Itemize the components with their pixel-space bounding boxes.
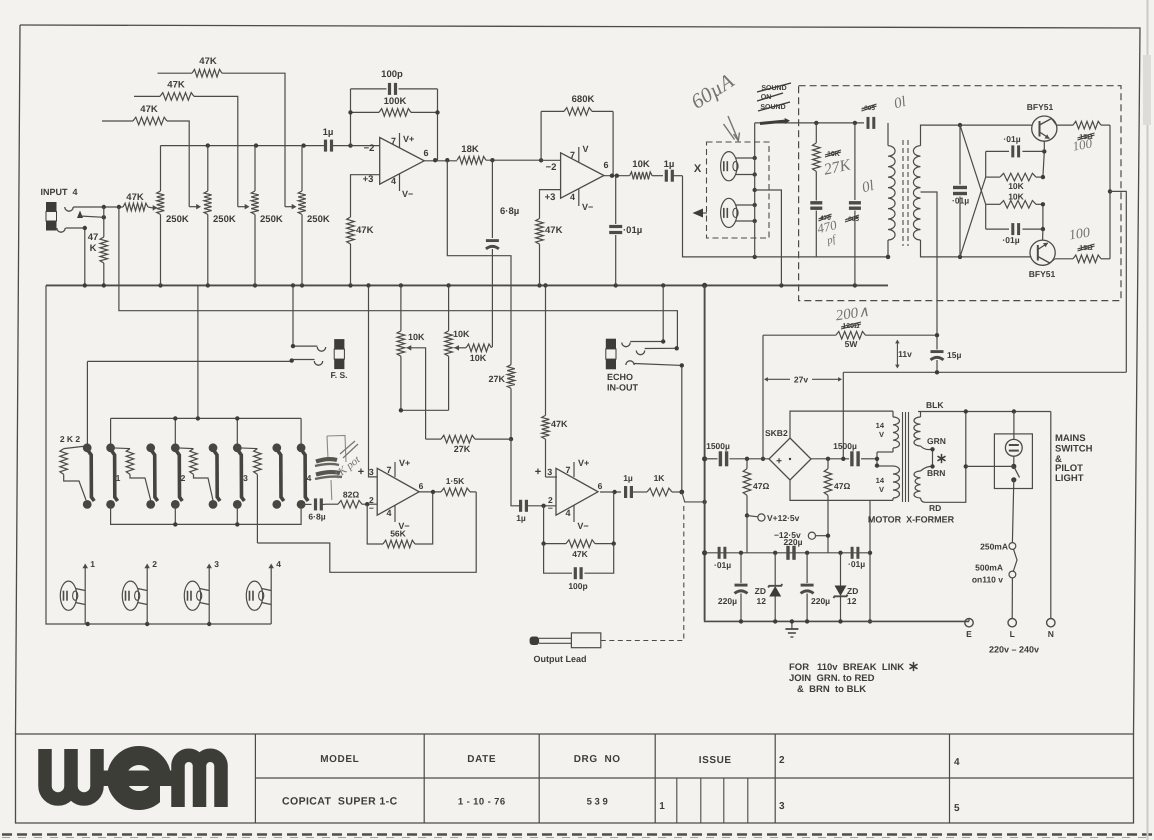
- svg-text:BRN: BRN: [927, 468, 945, 478]
- U2 feedback rails: [541, 111, 613, 175]
- resistor 47ohm supply 1: [743, 459, 769, 553]
- capacitor 100p U4 feedback: [544, 544, 614, 591]
- wire osc output tap: [1110, 191, 1126, 372]
- node input tip junction: [102, 207, 106, 220]
- svg-text:LIGHT: LIGHT: [1055, 473, 1084, 484]
- svg-text:3: 3: [243, 473, 248, 483]
- switch position labels: [116, 473, 312, 483]
- svg-text:1: 1: [659, 801, 665, 812]
- motor transformer T2 secondary upper: [914, 412, 931, 450]
- svg-text:1 - 10 - 76: 1 - 10 - 76: [458, 797, 506, 808]
- resistor 27K fb vertical: [488, 365, 514, 439]
- svg-text:N: N: [1048, 629, 1054, 639]
- erase head EH: [721, 198, 739, 227]
- wire switch out: [301, 503, 311, 505]
- wire FS tip to bus: [291, 285, 318, 348]
- wire switch feed from bus: [197, 285, 199, 418]
- label ISSUE: [699, 755, 732, 766]
- wiper arrow pot 250K-2: [189, 204, 201, 210]
- svg-text:3: 3: [369, 467, 374, 477]
- label 220v-240v: [989, 645, 1039, 655]
- output lead screened cable: [601, 492, 707, 641]
- playback head 4: [246, 559, 281, 624]
- svg-text:82Ω: 82Ω: [343, 490, 359, 500]
- svg-text:1500µ: 1500µ: [833, 441, 857, 451]
- svg-text:47K: 47K: [199, 56, 217, 67]
- svg-text:V−: V−: [582, 202, 593, 212]
- svg-text:BFY51: BFY51: [1029, 269, 1056, 279]
- note FOR 110v BREAK LINK: [789, 662, 918, 695]
- handwritten 100 lower: [1068, 226, 1091, 244]
- mains switch box: [994, 434, 1032, 489]
- svg-text:SKB2: SKB2: [765, 428, 788, 438]
- handwritten arrow overlay: [760, 118, 790, 124]
- resistor 56K U3 feedback: [367, 492, 433, 548]
- handwritten 27K osc: [822, 156, 853, 178]
- svg-text:4: 4: [565, 508, 570, 518]
- capacitor .01u U2 out shunt: [609, 176, 642, 286]
- svg-text:47K: 47K: [572, 549, 588, 559]
- capacitor 1u U4 input: [516, 500, 556, 523]
- resistor 27K osc (10K crossed): [813, 123, 842, 201]
- svg-text:MOTOR X-FORMER: MOTOR X-FORMER: [868, 515, 955, 525]
- handwritten 01 mid: [860, 178, 875, 196]
- wire SKB2 bottom to primary: [790, 480, 893, 500]
- svg-text:4: 4: [386, 508, 391, 518]
- Output Lead label: [534, 654, 587, 664]
- svg-text:·01µ: ·01µ: [1003, 134, 1020, 144]
- svg-text:MAINS: MAINS: [1055, 433, 1086, 444]
- upper fb right rail: [1041, 149, 1047, 179]
- resistor 47K U4 feedback: [541, 492, 616, 559]
- X mark record head: [694, 163, 702, 175]
- motor transformer primary link: [875, 452, 893, 468]
- capacitor 1u to heads: [664, 159, 683, 182]
- playback head 1: [60, 559, 95, 624]
- wire head mid tap to bus: [755, 190, 782, 285]
- svg-text:14: 14: [876, 476, 885, 485]
- U1 pin -2 label: [364, 143, 375, 154]
- svg-text:FOR 110v BREAK LINK: FOR 110v BREAK LINK: [789, 662, 904, 673]
- svg-text:250K: 250K: [166, 214, 189, 225]
- svg-text:1·5K: 1·5K: [446, 476, 465, 486]
- asterisk break link: [938, 454, 946, 463]
- svg-text:6: 6: [603, 160, 608, 170]
- svg-text:47K: 47K: [126, 192, 144, 203]
- svg-text:Output Lead: Output Lead: [534, 654, 587, 664]
- svg-text:COPICAT SUPER 1-C: COPICAT SUPER 1-C: [282, 796, 398, 808]
- terminal N: [1047, 619, 1055, 640]
- svg-text:ECHO: ECHO: [607, 372, 633, 382]
- U1 noninverting feed: [351, 175, 380, 217]
- svg-text:+: +: [776, 456, 782, 467]
- svg-text:680K: 680K: [572, 94, 595, 105]
- svg-text:4: 4: [276, 559, 281, 569]
- svg-text:7: 7: [570, 150, 575, 160]
- svg-text:·01µ: ·01µ: [848, 559, 865, 569]
- svg-text:6·8µ: 6·8µ: [500, 206, 519, 217]
- wiper arrow pot 250K-4: [285, 204, 297, 210]
- svg-text:7: 7: [391, 136, 396, 146]
- label GRN: [927, 436, 946, 446]
- svg-text:100p: 100p: [381, 69, 403, 80]
- record head contacts: [736, 156, 757, 177]
- FS jack body: [334, 339, 344, 369]
- svg-text:220µ: 220µ: [718, 596, 737, 606]
- svg-text:−2: −2: [546, 162, 557, 173]
- pot 10K depth wiper: [407, 345, 426, 439]
- U2 noninverting feed: [540, 190, 561, 219]
- svg-text:1: 1: [116, 473, 121, 483]
- osc transformer core: [903, 140, 908, 246]
- wire PSU left rail: [702, 285, 707, 620]
- issue number 2: [779, 755, 785, 766]
- svg-text:11v: 11v: [898, 349, 912, 359]
- resistor 47K mix-b: [134, 80, 238, 207]
- svg-text:E: E: [966, 629, 972, 639]
- svg-text:3: 3: [779, 801, 785, 812]
- capacitor 6.8u switch out: [308, 498, 325, 521]
- wire echo tip to bus: [630, 285, 665, 343]
- wire osc rails to transistors: [958, 123, 1032, 259]
- svg-text:V: V: [583, 144, 589, 154]
- fuse 500mA tap: [972, 563, 1016, 585]
- svg-text:47K: 47K: [356, 225, 374, 236]
- playback head 2: [122, 559, 157, 624]
- U4 pin 6 label: [598, 481, 603, 491]
- issue sub-cells: [677, 778, 748, 823]
- svg-text:6: 6: [598, 481, 603, 491]
- U2 pin +3 label: [545, 192, 556, 203]
- tap -12.5v: [774, 530, 830, 540]
- resistor 1.5K: [441, 476, 476, 496]
- zener ZD12 1: [755, 553, 783, 622]
- svg-text:1: 1: [90, 559, 95, 569]
- svg-text:V+12·5v: V+12·5v: [767, 513, 800, 523]
- svg-text:V+: V+: [403, 134, 414, 144]
- svg-text:220v – 240v: 220v – 240v: [989, 645, 1039, 655]
- node 18K to U2: [490, 158, 494, 162]
- U2 pin 7 V stub: [570, 144, 589, 162]
- op-amp U1: [380, 138, 425, 185]
- svg-text:ZD: ZD: [847, 586, 858, 596]
- resistor 680K U2 feedback: [541, 94, 613, 115]
- secondary GRN-BRN link: [930, 447, 934, 469]
- svg-text:V−: V−: [402, 189, 413, 199]
- U1 feedback right rail: [437, 89, 439, 160]
- svg-text:250K: 250K: [213, 214, 236, 225]
- label MOTOR X-FORMER: [868, 515, 955, 525]
- mains switch contacts: [1011, 464, 1019, 483]
- label 2K2: [60, 434, 81, 444]
- op-amp U3: [377, 468, 419, 515]
- wire switch top feed line: [111, 416, 302, 446]
- svg-text:BLK: BLK: [926, 400, 944, 410]
- pencil pot sketch: [327, 436, 346, 463]
- svg-text:27K: 27K: [454, 444, 471, 454]
- model value COPICAT SUPER 1-C: [282, 796, 398, 808]
- capacitor 100p U1 feedback: [351, 69, 438, 95]
- svg-text:ISSUE: ISSUE: [699, 755, 732, 766]
- svg-text:MODEL: MODEL: [320, 754, 359, 765]
- junction dots on bus: [83, 283, 858, 288]
- resistor 47K input series: [123, 192, 152, 211]
- resistor 10K U2 out: [630, 159, 663, 180]
- op-amp U4: [556, 468, 598, 515]
- wire lamp feed: [1013, 412, 1015, 440]
- svg-text:5: 5: [954, 803, 960, 814]
- wire N line: [1050, 412, 1052, 620]
- svg-text:6·8µ: 6·8µ: [308, 512, 325, 522]
- svg-text:10K: 10K: [1008, 181, 1024, 191]
- wire switch bottom link: [111, 504, 302, 526]
- handwritten 1K pot: [332, 453, 363, 481]
- resistor 47K U1 bias: [347, 217, 374, 285]
- FS contact hooks: [314, 347, 325, 365]
- wire U2 output: [604, 174, 630, 178]
- svg-text:18K: 18K: [461, 144, 479, 155]
- wire main bus (signal common): [46, 284, 888, 286]
- tap V+12.5v: [747, 513, 800, 523]
- svg-text:6: 6: [419, 481, 424, 491]
- osc secondary centre tap: [921, 192, 938, 348]
- svg-text:·01µ: ·01µ: [1002, 235, 1019, 245]
- pot 10K depth: [397, 285, 425, 410]
- svg-text:4: 4: [307, 473, 312, 483]
- svg-text:10K: 10K: [632, 159, 650, 170]
- U4 pin + 3 label: [535, 466, 552, 478]
- svg-text:·01µ: ·01µ: [623, 225, 642, 236]
- label DATE: [467, 754, 496, 765]
- date value 1-10-76: [458, 797, 506, 808]
- U2 pin 6 label: [603, 160, 608, 170]
- pencil scribble strokes: [340, 441, 358, 458]
- svg-text:+3: +3: [545, 192, 556, 203]
- svg-text:5W: 5W: [845, 339, 859, 349]
- pilot lamp: [1005, 439, 1022, 456]
- wire BLK line: [918, 409, 1051, 413]
- U3 pin 2 label: [369, 495, 374, 513]
- pot 250K-1: [157, 146, 189, 286]
- svg-text:100K: 100K: [384, 96, 407, 107]
- wire RD to switch: [966, 465, 1014, 467]
- svg-text:BFY51: BFY51: [1027, 102, 1054, 112]
- svg-text:F. S.: F. S.: [330, 370, 347, 380]
- output plug shaft: [539, 638, 571, 643]
- motor transformer T2 secondary lower: [914, 466, 931, 502]
- issue number 5: [954, 803, 960, 814]
- svg-text:IN-OUT: IN-OUT: [607, 383, 638, 393]
- op-amp U2: [561, 153, 604, 198]
- wire summing line: [161, 143, 323, 147]
- wire oscillator top rail: [755, 121, 864, 125]
- U1 pin 4 V- stub: [391, 174, 413, 199]
- svg-text:27v: 27v: [794, 375, 808, 385]
- handwritten 60uA: [686, 68, 739, 140]
- label RD: [929, 503, 941, 513]
- svg-text:100: 100: [1068, 226, 1091, 244]
- svg-text:10K: 10K: [470, 353, 487, 363]
- svg-text:56K: 56K: [390, 529, 406, 539]
- wire U3 +3 from bus: [369, 285, 378, 477]
- resistor 47K input shunt: [88, 217, 108, 284]
- capacitor .01 osc series (crossed label): [862, 104, 877, 129]
- U1 pin 6 label: [423, 148, 428, 158]
- svg-text:+: +: [535, 466, 541, 478]
- erase head contacts: [736, 203, 757, 223]
- playback heads bottom rail: [46, 285, 271, 626]
- svg-text:2: 2: [181, 473, 186, 483]
- upper fb left rail: [985, 151, 987, 177]
- svg-text:10K: 10K: [408, 332, 425, 342]
- capacitor .01u fb upper: [986, 134, 1045, 157]
- wire U3 out to switch4 return: [257, 492, 476, 572]
- svg-text:2: 2: [152, 559, 157, 569]
- label BLK: [926, 400, 944, 410]
- wire U3 output: [419, 490, 441, 494]
- svg-text:L: L: [1010, 629, 1015, 639]
- wire echo ring junction: [645, 346, 679, 350]
- svg-text:DRG NO: DRG NO: [574, 754, 621, 765]
- svg-text:−2: −2: [364, 143, 375, 154]
- capacitor .01u rail 2: [848, 547, 865, 569]
- resistor 10K osc lower: [986, 192, 1043, 209]
- svg-text:47Ω: 47Ω: [753, 481, 769, 491]
- output plug barrel: [571, 633, 600, 648]
- oscillator dashed box: [799, 86, 1121, 301]
- svg-text:220µ: 220µ: [811, 596, 830, 606]
- capacitor 220u filter 1: [718, 553, 748, 622]
- resistor 47K mix-c: [102, 104, 189, 207]
- resistor 1K out: [647, 473, 684, 496]
- pencil crossed marks: [315, 459, 342, 500]
- svg-text:& BRN to BLK: & BRN to BLK: [797, 684, 866, 695]
- resistor 100K U1 feedback: [348, 96, 439, 116]
- capacitor 1u U4 out: [623, 473, 647, 498]
- terminal L: [1008, 619, 1016, 640]
- svg-text:·01µ: ·01µ: [714, 560, 731, 570]
- zener ZD12 2: [834, 553, 859, 622]
- fuse 250mA: [980, 542, 1016, 552]
- U2 pin -2 label: [546, 162, 557, 173]
- handwritten 200 ohm: [835, 304, 870, 325]
- svg-text:47K: 47K: [140, 104, 158, 115]
- U4 pin 7 V+ stub: [565, 458, 589, 477]
- svg-text:V−: V−: [577, 521, 588, 531]
- svg-text:V: V: [879, 430, 884, 439]
- resistor 15ohm Q2 (crossed): [1055, 244, 1110, 263]
- pot 10K swell wiper: [454, 345, 466, 351]
- bridge rectifier SKB2: [765, 428, 811, 480]
- label 27v with arrows: [764, 375, 842, 385]
- pot 250K-4: [298, 146, 330, 286]
- U3 pin 7 V+ stub: [386, 458, 410, 477]
- output plug tip: [530, 637, 540, 646]
- label DRG NO: [574, 754, 621, 765]
- FS label: [330, 370, 347, 380]
- wire pots bottom link: [399, 408, 449, 412]
- svg-text:10K: 10K: [453, 329, 470, 339]
- title block column dividers: [255, 734, 949, 823]
- svg-text:47K: 47K: [167, 80, 185, 91]
- U4 pin 2 label: [548, 495, 553, 513]
- U1 pin +3 label: [363, 174, 374, 185]
- fuse link lever: [1013, 549, 1017, 571]
- svg-text:ZD: ZD: [755, 586, 766, 596]
- resistor 200ohm 5W (120 crossed): [763, 322, 939, 349]
- resistor 27K fb horizontal: [426, 435, 511, 454]
- wire FS ring to 2K2: [87, 358, 314, 446]
- resistor 10K swell series: [466, 344, 492, 363]
- svg-text:1µ: 1µ: [664, 159, 675, 170]
- resistor 47K U2 bias: [536, 219, 563, 286]
- erase head arrow: [693, 209, 708, 218]
- svg-text:12: 12: [757, 596, 767, 606]
- motor transformer T2 primary upper: [876, 411, 900, 452]
- svg-text:250K: 250K: [307, 214, 330, 225]
- svg-text:47K: 47K: [551, 419, 568, 429]
- node 27K junction: [509, 437, 513, 441]
- svg-text:4: 4: [391, 176, 396, 186]
- svg-text:15µ: 15µ: [947, 350, 961, 360]
- svg-text:6: 6: [423, 148, 428, 158]
- svg-text:1K: 1K: [654, 473, 666, 483]
- wire U1 inverting input: [351, 145, 380, 147]
- issue number 3: [779, 801, 785, 812]
- wire echo send line: [119, 207, 678, 348]
- svg-text:V+: V+: [399, 458, 410, 468]
- resistor 2K2: [60, 446, 88, 500]
- wire switch to fuse: [1012, 480, 1013, 543]
- sound-on-sound crossed label: [757, 83, 791, 111]
- svg-text:SOUND: SOUND: [761, 85, 786, 92]
- resistor 47K U4 bias feed: [542, 285, 568, 477]
- U1 pin 7 V+ stub: [391, 133, 414, 148]
- capacitor 470p osc: [810, 203, 831, 257]
- svg-text:4: 4: [954, 757, 960, 768]
- transistor Q2 BFY51: [1029, 229, 1056, 279]
- resistor 15ohm Q1 (crossed): [1057, 121, 1110, 141]
- pot 10K swell: [445, 285, 470, 410]
- wiper arrow pot 250K-1: [152, 205, 158, 211]
- wire U1 out to tone stack: [447, 160, 511, 365]
- right scan edge: [1143, 0, 1151, 840]
- svg-text:·01µ: ·01µ: [952, 196, 969, 206]
- label MAINS SWITCH PILOT LIGHT: [1055, 433, 1093, 484]
- svg-text:V: V: [879, 485, 884, 494]
- capacitor 15u: [931, 348, 962, 372]
- svg-text:1µ: 1µ: [623, 473, 633, 483]
- U4 noninverting feed: [546, 476, 558, 478]
- svg-text:SWITCH: SWITCH: [1055, 444, 1093, 455]
- svg-text:−: −: [548, 503, 553, 513]
- capacitor 220u series: [783, 537, 802, 560]
- wire lamp to switch: [1013, 456, 1015, 466]
- wire U4 output: [600, 490, 621, 494]
- svg-text:250K: 250K: [260, 214, 283, 225]
- transistor Q1 BFY51: [1027, 102, 1057, 151]
- U1 feedback left rail: [350, 89, 352, 146]
- svg-text:47K: 47K: [545, 225, 563, 236]
- resistor inter-switch 2: [175, 448, 213, 501]
- label 11v with arrows: [895, 340, 912, 369]
- svg-text:220µ: 220µ: [783, 537, 802, 547]
- svg-text:K: K: [90, 243, 97, 254]
- wire 27K to U4 input: [511, 439, 517, 506]
- svg-text:on110 v: on110 v: [972, 575, 1003, 585]
- record/erase head dashed box: [707, 142, 770, 238]
- capacitor 1500u main: [705, 441, 769, 466]
